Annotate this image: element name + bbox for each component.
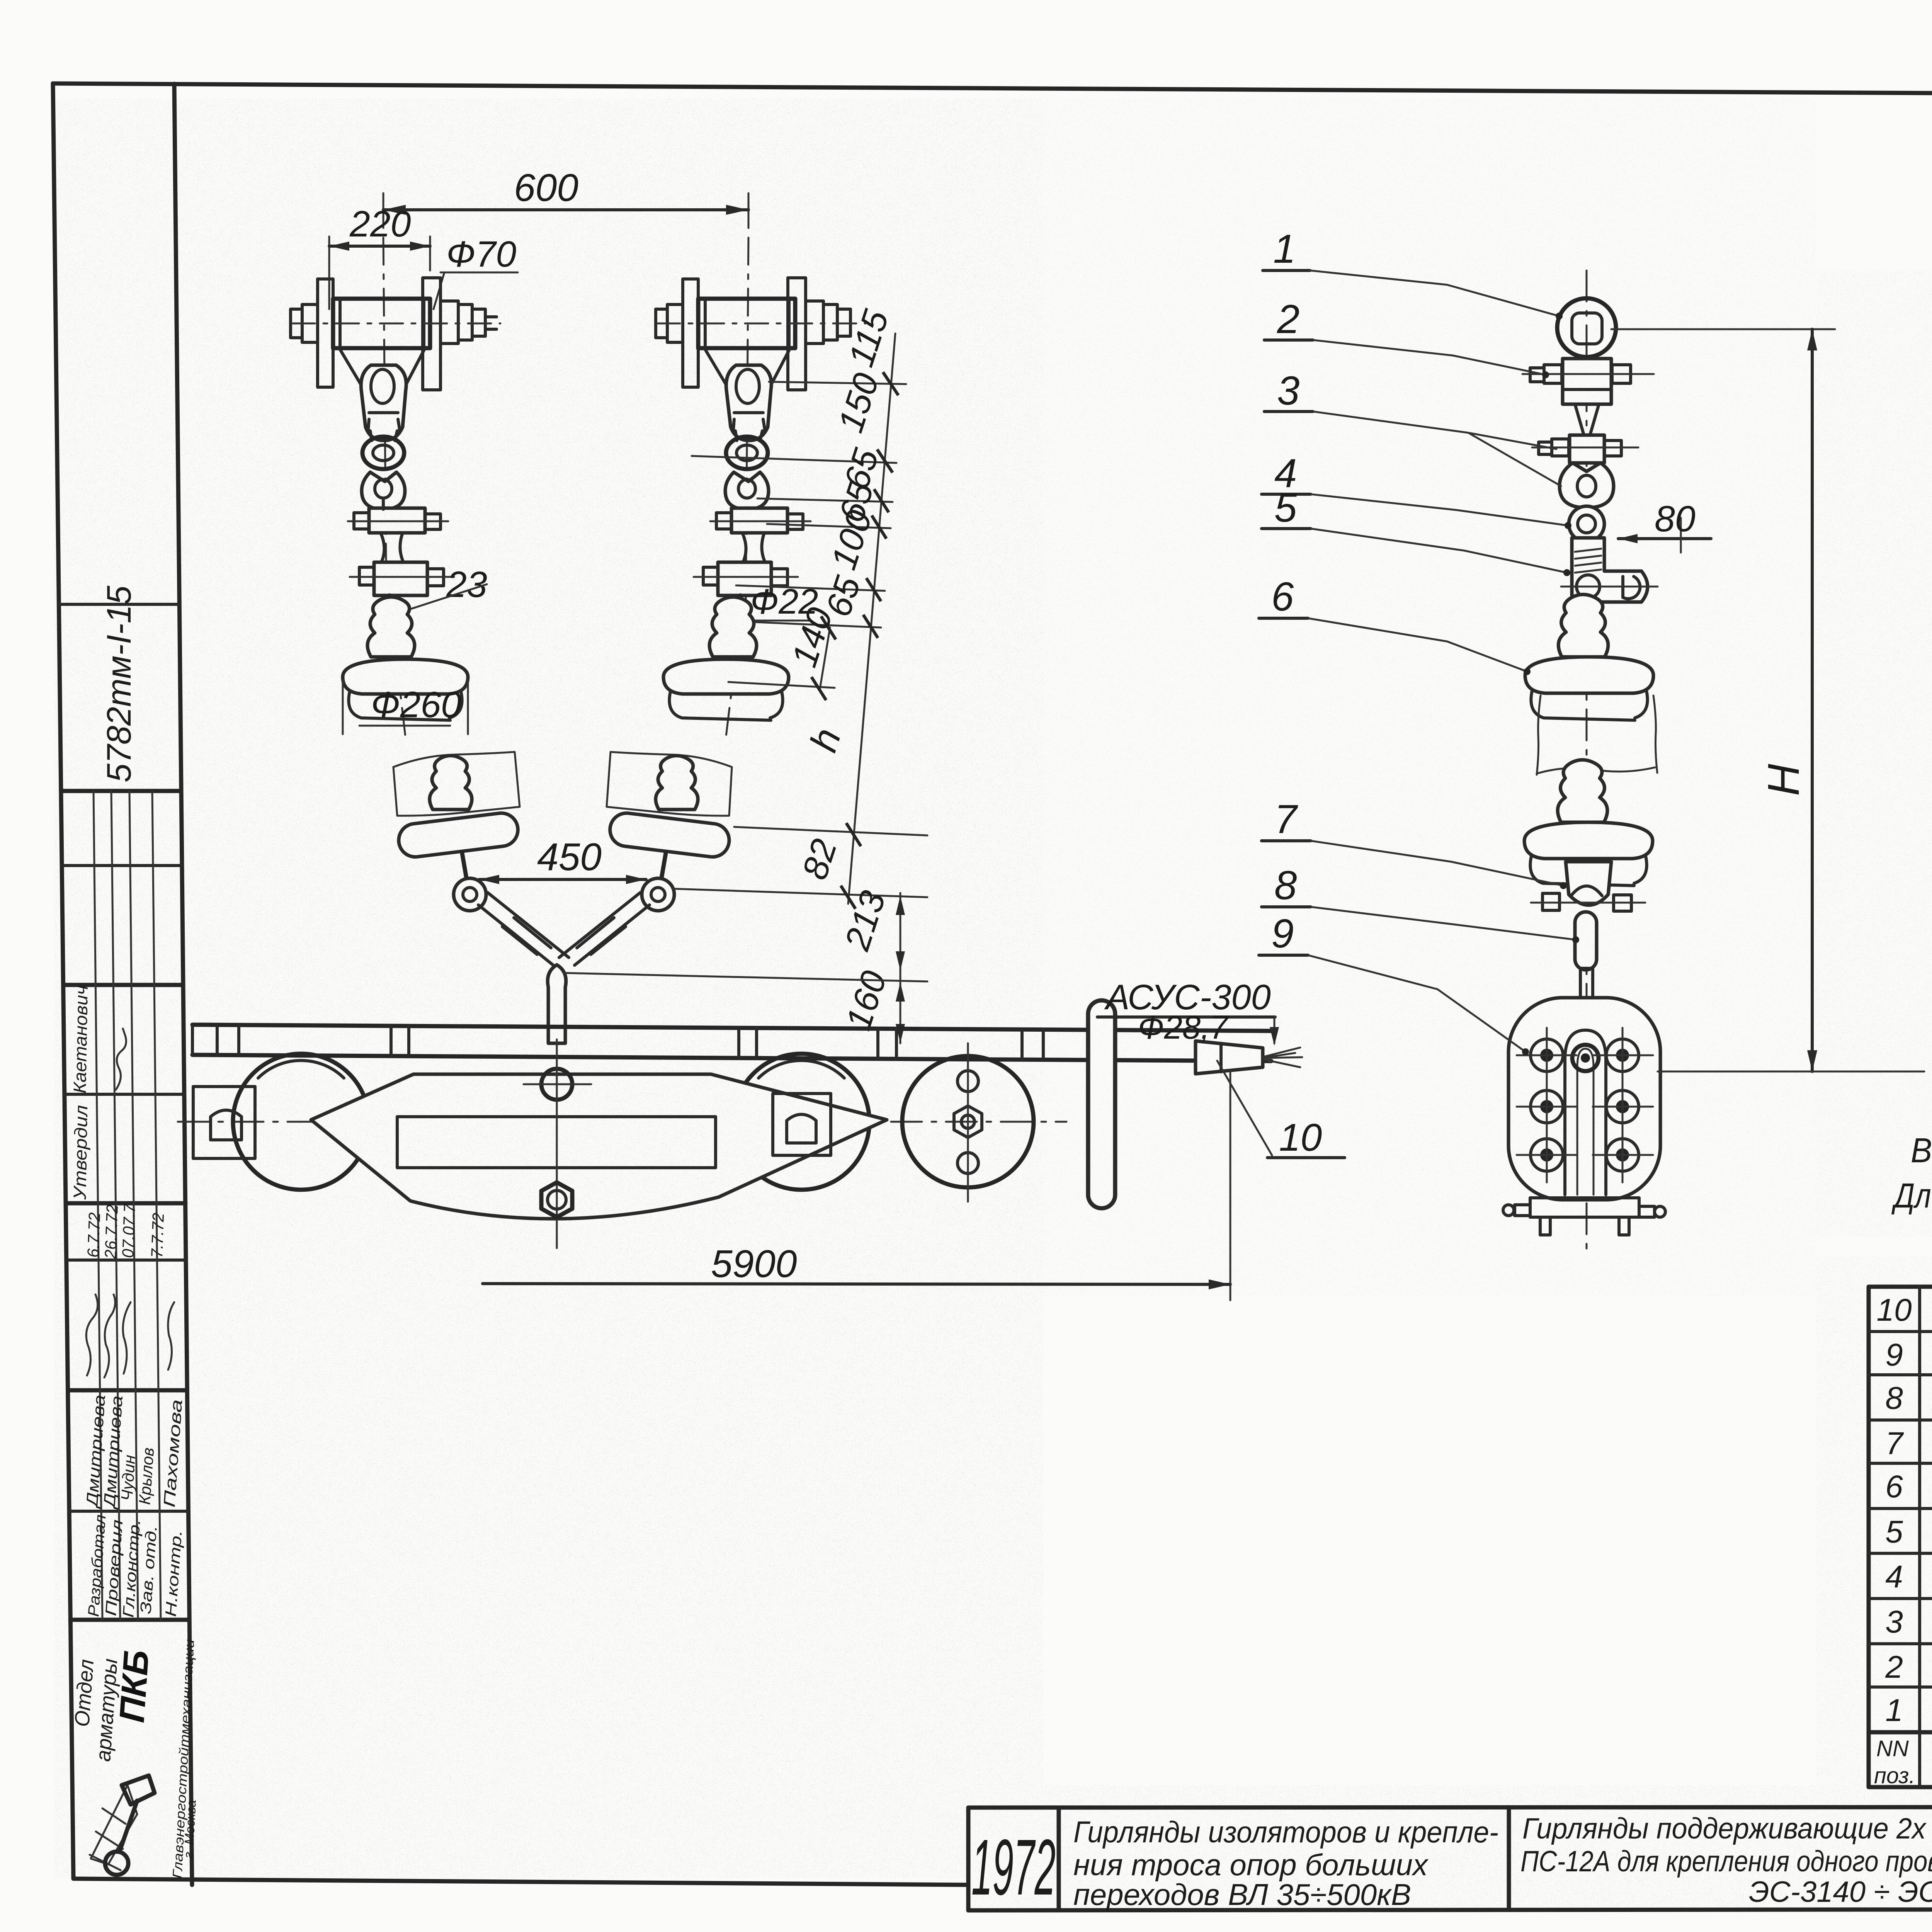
right unit right bolt stack [806, 301, 823, 344]
column lines [1918, 1287, 1921, 1787]
right arm [559, 893, 650, 965]
conductor band [192, 1025, 1271, 1031]
extension lines [769, 382, 906, 384]
dim 80 [1618, 537, 1711, 540]
dim F260 [342, 680, 344, 734]
strip right edge [174, 84, 192, 1885]
pin + label 23 [389, 595, 393, 611]
centerline [1586, 270, 1588, 1252]
left lower disc (tilted pill) [397, 811, 520, 859]
left arm [478, 893, 569, 965]
conductor clamp stem [547, 989, 550, 1043]
right clevis [726, 365, 771, 440]
notes under table [1891, 1131, 1932, 1215]
V strap [1575, 404, 1599, 434]
diamond plate [311, 1074, 887, 1219]
middle roller bracket [773, 1094, 831, 1155]
top ring [1557, 298, 1616, 357]
STAMP STRIP (left vertical title block) [59, 84, 199, 1885]
shackle clamp [1570, 435, 1604, 463]
right bracket [704, 348, 790, 391]
disc 1 [1525, 657, 1653, 693]
roller left [233, 1054, 369, 1190]
callouts 1-9 [1259, 226, 1579, 1055]
right cylinder body [698, 299, 795, 348]
dim 5900 [1230, 1070, 1231, 1300]
side plates [318, 279, 333, 387]
dim H [1611, 328, 1835, 330]
paper speckle noise [0, 0, 0, 0]
border left [53, 83, 73, 1879]
right insulator disc [663, 659, 789, 694]
strip dividers [59, 603, 179, 606]
140 sub-chain [820, 628, 830, 689]
right hanger unit [656, 278, 866, 720]
TITLE BLOCK [968, 1807, 1932, 1932]
yoke under disc2 [1566, 862, 1611, 905]
left bolt [302, 304, 318, 342]
frayed cable end [1264, 1048, 1302, 1067]
section break band [1537, 696, 1657, 775]
LEFT DRAWING : double V suspension string [329, 166, 748, 736]
cap 2 [1558, 760, 1607, 823]
axis dash [292, 323, 500, 325]
shackle oval [1560, 463, 1614, 508]
protective sleeve cone [1196, 1041, 1263, 1074]
right unit left bolt [667, 304, 683, 342]
left lower cap [430, 756, 472, 810]
six bolts [1531, 1039, 1639, 1171]
PARTS LIST TABLE [1869, 1287, 1932, 1790]
lower tilted insulators and V yoke [393, 752, 732, 1043]
insulator cap [367, 597, 415, 657]
strip sub-columns [94, 791, 102, 1620]
cap 1 [1558, 595, 1608, 657]
right lower cap [656, 756, 698, 810]
dim 600 [383, 193, 384, 228]
centerline left string [383, 238, 405, 736]
signatures row [86, 1294, 98, 1376]
border top [53, 83, 1932, 97]
cylinder body [333, 299, 430, 348]
disc 2 [1524, 822, 1653, 859]
plate bottom nut [541, 1182, 572, 1217]
bottom beam with rollers [178, 978, 1345, 1300]
clevis with oval hole [361, 365, 406, 440]
signature [116, 1029, 126, 1090]
shackle [362, 472, 405, 509]
band joints [217, 1025, 1043, 1060]
bottom bracket [1530, 1198, 1639, 1217]
right section patch [607, 752, 732, 816]
roller right with nut [902, 1056, 1034, 1187]
dim 450 [479, 878, 646, 881]
right side plates [683, 279, 698, 387]
callout 10 [1217, 1061, 1272, 1155]
row lines [1869, 1330, 1932, 1333]
left hanger unit [291, 278, 500, 734]
dim 220 [328, 236, 330, 309]
right lower disc [608, 811, 731, 859]
bracket [339, 348, 425, 391]
border bottom right (under title block) [968, 1909, 1932, 1910]
right insulator cap [709, 597, 757, 657]
chain line [848, 333, 895, 904]
left section patch [393, 752, 520, 816]
left pin and ball [462, 853, 467, 880]
right oval ring link [726, 437, 768, 469]
centerline right string [726, 238, 748, 736]
right bolt and nuts [440, 301, 458, 344]
roller left bracket [193, 1087, 255, 1158]
round link [1569, 506, 1604, 542]
outline [1869, 1287, 1932, 1787]
special lug (UC-12-16) [1572, 538, 1648, 602]
right-side dimension chain of left drawing [564, 305, 927, 1043]
clamp A with side bolts [369, 508, 425, 533]
right clamp B [718, 562, 771, 595]
stem [1582, 602, 1593, 610]
roller middle [733, 1054, 869, 1190]
vertical dim line 213/160 [900, 893, 901, 1043]
attachment clamp (KGN-45-5) [1563, 359, 1611, 404]
parts rows [1876, 1293, 1932, 1729]
link neck [368, 419, 400, 440]
taper link [381, 533, 403, 562]
clamp B [374, 562, 427, 595]
chain ticks [841, 372, 898, 909]
grip handle [1088, 1000, 1115, 1208]
right clamp A [731, 508, 787, 533]
MIDDLE DRAWING : single suspension string [1503, 270, 1924, 1252]
border bottom left [73, 1879, 968, 1885]
roller block [1509, 998, 1660, 1200]
oval ring link [362, 437, 404, 469]
right pin and ball [661, 853, 666, 880]
logo sketch [90, 1785, 137, 1870]
plate top bolt [541, 1069, 572, 1100]
beam axis dash [178, 1121, 1066, 1123]
center U link and stem [548, 965, 566, 1043]
insulator disc [343, 659, 468, 694]
link bar [1575, 912, 1597, 970]
plate slot [397, 1117, 716, 1168]
right shackle [725, 472, 769, 509]
